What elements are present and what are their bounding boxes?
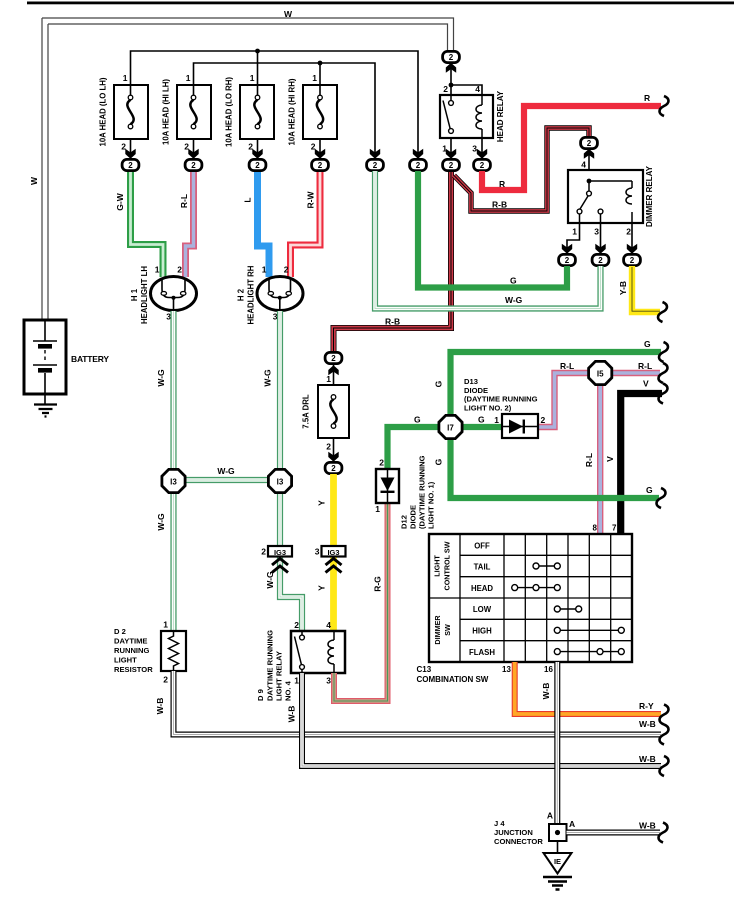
svg-text:IG3: IG3 bbox=[327, 548, 339, 557]
svg-text:(DAYTIME RUNNING: (DAYTIME RUNNING bbox=[418, 455, 427, 529]
svg-text:DAYTIME: DAYTIME bbox=[114, 637, 147, 646]
connector 2 under F4 bbox=[312, 159, 329, 170]
svg-text:3: 3 bbox=[594, 227, 599, 237]
svg-text:TAIL: TAIL bbox=[474, 563, 491, 572]
svg-text:2: 2 bbox=[443, 84, 448, 94]
wire R-L D13 to connector I5 and combination SW pin8 bbox=[538, 361, 660, 534]
svg-text:G: G bbox=[434, 380, 444, 387]
svg-text:G: G bbox=[434, 458, 444, 465]
svg-text:2: 2 bbox=[541, 415, 546, 425]
wire W battery to head relay (double line) bbox=[42, 18, 454, 320]
wire R-G D9 pin3 to diode D12 bbox=[334, 503, 388, 701]
connector IG3 (pin3) bbox=[315, 546, 346, 573]
svg-text:R-L: R-L bbox=[179, 194, 189, 208]
wire W-B from J4 right bbox=[567, 821, 661, 833]
node junction dot on line A bbox=[255, 49, 260, 54]
svg-text:V: V bbox=[643, 379, 649, 389]
connector arrow (G feed) bbox=[413, 149, 423, 159]
connector arrow dimmer pin1 bbox=[562, 244, 572, 254]
svg-text:H 1: H 1 bbox=[130, 288, 139, 301]
svg-text:1: 1 bbox=[375, 504, 380, 514]
svg-text:G: G bbox=[646, 485, 653, 495]
svg-text:LIGHT NO. 2): LIGHT NO. 2) bbox=[464, 403, 512, 412]
svg-text:G: G bbox=[478, 415, 485, 425]
svg-text:R-G: R-G bbox=[373, 576, 383, 592]
svg-text:I7: I7 bbox=[447, 424, 454, 433]
svg-text:IG3: IG3 bbox=[274, 548, 286, 557]
connector arrow F1 pin2 bbox=[125, 149, 135, 159]
svg-text:1: 1 bbox=[123, 73, 128, 83]
page top border line bbox=[27, 2, 734, 5]
connector I3 right bbox=[268, 469, 291, 492]
svg-text:2: 2 bbox=[284, 265, 289, 275]
svg-text:C13: C13 bbox=[417, 665, 432, 674]
connector arrow (W-G feed) bbox=[370, 149, 380, 159]
connector 2 head relay pin1 bbox=[443, 159, 460, 170]
svg-text:1: 1 bbox=[572, 227, 577, 237]
fuse F3 10A HEAD (LO RH) bbox=[225, 73, 275, 160]
connector 2 above DRL fuse bbox=[325, 352, 342, 363]
svg-text:Y: Y bbox=[317, 500, 327, 506]
svg-text:10A HEAD (HI LH): 10A HEAD (HI LH) bbox=[162, 79, 171, 145]
svg-text:V: V bbox=[605, 456, 615, 462]
connector 2 dimmer pin2 bbox=[624, 254, 641, 265]
svg-text:LIGHT: LIGHT bbox=[114, 656, 137, 665]
connector arrow head relay pin3 bbox=[477, 149, 487, 159]
svg-text:R: R bbox=[644, 93, 650, 103]
svg-text:HEAD: HEAD bbox=[471, 584, 493, 593]
svg-text:W-B: W-B bbox=[287, 706, 297, 723]
svg-text:G-W: G-W bbox=[115, 192, 125, 210]
svg-text:D 9: D 9 bbox=[256, 689, 265, 701]
svg-text:OFF: OFF bbox=[474, 541, 490, 550]
svg-text:W-B: W-B bbox=[639, 719, 656, 729]
relay DIMMER RELAY bbox=[568, 160, 654, 237]
connector arrow dimmer pin2 bbox=[627, 244, 637, 254]
wire W-G headlight RH pin3 down to IG3 bbox=[263, 311, 281, 574]
svg-text:1: 1 bbox=[262, 265, 267, 275]
svg-text:I3: I3 bbox=[170, 478, 177, 487]
svg-text:HEADLIGHT LH: HEADLIGHT LH bbox=[140, 266, 149, 324]
svg-text:2: 2 bbox=[177, 265, 182, 275]
svg-text:2: 2 bbox=[626, 227, 631, 237]
svg-text:R-L: R-L bbox=[560, 361, 574, 371]
svg-text:3: 3 bbox=[472, 144, 477, 154]
svg-text:7: 7 bbox=[612, 524, 617, 533]
battery bbox=[24, 320, 109, 404]
svg-text:W-B: W-B bbox=[639, 821, 656, 831]
svg-text:W-G: W-G bbox=[265, 571, 275, 589]
connector arrow dimmer pin3 bbox=[595, 244, 605, 254]
connector arrow F2 pin2 bbox=[188, 149, 198, 159]
svg-text:DIMMER RELAY: DIMMER RELAY bbox=[645, 165, 654, 227]
connector arrow F4 pin2 bbox=[315, 149, 325, 159]
wire G loop from connector I7 (top run, bottom run) bbox=[434, 339, 662, 498]
svg-text:2: 2 bbox=[294, 620, 299, 630]
svg-text:CONNECTOR: CONNECTOR bbox=[494, 837, 543, 846]
svg-text:R-L: R-L bbox=[584, 453, 594, 467]
svg-text:HIGH: HIGH bbox=[472, 627, 492, 636]
fuse F2 10A HEAD (HI LH) bbox=[162, 73, 212, 160]
svg-text:W-B: W-B bbox=[639, 754, 656, 764]
svg-text:LIGHT NO. 1): LIGHT NO. 1) bbox=[427, 481, 436, 529]
switch C13 COMBINATION SW bbox=[417, 524, 633, 684]
connector I5 bbox=[589, 361, 612, 384]
svg-text:R-B: R-B bbox=[492, 200, 507, 210]
svg-text:2: 2 bbox=[261, 547, 266, 557]
wire bus line B (fuses HI LH / HI RH) bbox=[194, 63, 376, 160]
connector 2 (W-G feed) bbox=[367, 159, 384, 170]
svg-text:Y: Y bbox=[317, 585, 327, 591]
svg-text:W-G: W-G bbox=[263, 369, 273, 387]
svg-text:1: 1 bbox=[494, 415, 499, 425]
svg-text:R-L: R-L bbox=[638, 361, 652, 371]
connector 2 under F2 bbox=[185, 159, 202, 170]
dimmer relay pin4 connector: arrow + oval bbox=[584, 149, 594, 159]
wire R-Y combination SW pin13 bbox=[515, 662, 661, 714]
svg-text:D13: D13 bbox=[464, 377, 478, 386]
svg-text:W-B: W-B bbox=[155, 698, 165, 715]
svg-text:G: G bbox=[644, 339, 651, 349]
svg-text:D 2: D 2 bbox=[114, 627, 126, 636]
connector 2 (G feed) bbox=[410, 159, 427, 170]
svg-text:W-G: W-G bbox=[156, 513, 166, 531]
svg-text:7.5A DRL: 7.5A DRL bbox=[302, 394, 311, 429]
svg-text:1: 1 bbox=[155, 265, 160, 275]
ground IE under J4 bbox=[543, 841, 572, 890]
svg-text:3: 3 bbox=[315, 547, 320, 557]
svg-text:A: A bbox=[569, 819, 575, 829]
svg-text:DIMMER: DIMMER bbox=[433, 615, 442, 645]
connector 2 under F3 bbox=[249, 159, 266, 170]
wire relay pin2/pin4 feed bbox=[451, 63, 482, 95]
svg-text:1: 1 bbox=[326, 374, 331, 384]
svg-text:NO. 4: NO. 4 bbox=[284, 680, 293, 701]
diode D13 (DAYTIME RUNNING LIGHT NO. 2) bbox=[464, 377, 546, 438]
wire W-G joining octagon connectors bbox=[185, 466, 268, 480]
svg-text:1: 1 bbox=[294, 676, 299, 686]
svg-text:LOW: LOW bbox=[473, 605, 492, 614]
connector I3 left bbox=[162, 469, 185, 492]
connector 2 dimmer pin3 bbox=[592, 254, 609, 265]
wire W-B combination SW pin16 to J4 bbox=[541, 662, 557, 824]
svg-text:2: 2 bbox=[379, 458, 384, 468]
ground (battery) bbox=[34, 405, 57, 417]
headlamp H1 HEADLIGHT LH bbox=[130, 265, 197, 325]
wire R-B head relay pin1 to DRL fuse and dimmer relay bbox=[334, 128, 590, 351]
wire G-W fuse F1 to headlight LH pin1 bbox=[115, 171, 163, 277]
head relay top connector: arrow + oval 2 bbox=[446, 63, 456, 73]
wire G connector to dimmer pin1 bbox=[418, 171, 567, 288]
wire bus line A (fuses LO LH / LO RH) bbox=[131, 51, 419, 160]
svg-text:I3: I3 bbox=[277, 478, 284, 487]
connector IG3 (pin2) bbox=[261, 546, 292, 573]
svg-text:10A HEAD (LO LH): 10A HEAD (LO LH) bbox=[99, 77, 108, 146]
svg-text:1: 1 bbox=[163, 620, 168, 630]
svg-text:1: 1 bbox=[442, 144, 447, 154]
svg-text:1: 1 bbox=[312, 73, 317, 83]
svg-text:W-G: W-G bbox=[217, 466, 235, 476]
wire W-G headlight LH pin3 down bbox=[156, 311, 174, 631]
svg-text:SW: SW bbox=[443, 624, 452, 636]
svg-text:G: G bbox=[510, 276, 517, 286]
svg-text:10A HEAD (LO RH): 10A HEAD (LO RH) bbox=[225, 77, 234, 147]
connector arrow DRL fuse pin2 bbox=[328, 452, 338, 462]
svg-text:HEAD RELAY: HEAD RELAY bbox=[496, 90, 505, 142]
connector arrow F3 pin2 bbox=[252, 149, 262, 159]
svg-text:13: 13 bbox=[502, 665, 511, 674]
fuse F4 10A HEAD (HI RH) bbox=[288, 73, 338, 160]
svg-text:I5: I5 bbox=[597, 370, 604, 379]
svg-text:HEADLIGHT RH: HEADLIGHT RH bbox=[247, 265, 256, 324]
svg-text:RESISTOR: RESISTOR bbox=[114, 665, 153, 674]
svg-text:3: 3 bbox=[326, 676, 331, 686]
svg-text:(DAYTIME RUNNING: (DAYTIME RUNNING bbox=[464, 395, 538, 404]
svg-text:JUNCTION: JUNCTION bbox=[494, 828, 533, 837]
svg-text:4: 4 bbox=[581, 160, 586, 170]
wire G D12 to connector I7 bbox=[388, 415, 441, 470]
svg-text:R: R bbox=[499, 179, 505, 189]
svg-text:IE: IE bbox=[554, 857, 561, 866]
connector 2 head relay pin3 bbox=[474, 159, 491, 170]
relay D9 DAYTIME RUNNING LIGHT RELAY NO. 4 bbox=[256, 620, 345, 701]
svg-text:1: 1 bbox=[186, 73, 191, 83]
svg-text:LIGHT RELAY: LIGHT RELAY bbox=[275, 651, 284, 701]
svg-text:R-Y: R-Y bbox=[639, 701, 654, 711]
connector 2 dimmer pin1 bbox=[559, 254, 576, 265]
wire R-L fuse F2 to headlight LH pin2 bbox=[179, 171, 194, 277]
wire W-B D2 pin2 bbox=[155, 671, 661, 735]
wire V combination SW pin7 bbox=[605, 379, 662, 535]
relay U HEAD RELAY bbox=[440, 84, 505, 160]
svg-text:2: 2 bbox=[326, 442, 331, 452]
svg-text:G: G bbox=[414, 415, 421, 425]
svg-text:R-B: R-B bbox=[385, 317, 400, 327]
diode D12 (DAYTIME RUNNING LIGHT NO. 1) bbox=[375, 455, 435, 529]
node junction dot bbox=[449, 83, 454, 88]
resistor D2 DAYTIME RUNNING LIGHT RESISTOR bbox=[114, 620, 186, 685]
wire Y-B dimmer pin2 bbox=[618, 266, 660, 312]
svg-text:CONTROL SW: CONTROL SW bbox=[443, 541, 452, 590]
svg-text:DAYTIME RUNNING: DAYTIME RUNNING bbox=[266, 630, 275, 701]
svg-text:8: 8 bbox=[593, 524, 598, 533]
svg-text:LIGHT: LIGHT bbox=[433, 555, 442, 577]
svg-text:W: W bbox=[284, 9, 293, 19]
connector I7 bbox=[439, 415, 462, 438]
svg-text:W-B: W-B bbox=[541, 683, 551, 700]
svg-text:A: A bbox=[547, 811, 553, 821]
svg-text:10A HEAD (HI RH): 10A HEAD (HI RH) bbox=[288, 78, 297, 145]
wire R-W fuse F4 to headlight RH pin2 bbox=[291, 171, 321, 277]
svg-text:DIODE: DIODE bbox=[409, 505, 418, 529]
connector 2 under F1 bbox=[122, 159, 139, 170]
node junction dot on line B bbox=[318, 61, 323, 66]
svg-text:16: 16 bbox=[544, 665, 553, 674]
svg-text:Y-B: Y-B bbox=[618, 281, 628, 295]
svg-text:BATTERY: BATTERY bbox=[71, 354, 109, 364]
svg-text:RUNNING: RUNNING bbox=[114, 646, 150, 655]
svg-text:W-G: W-G bbox=[156, 369, 166, 387]
svg-text:L: L bbox=[243, 197, 253, 202]
svg-text:R-W: R-W bbox=[306, 191, 316, 209]
svg-text:DIODE: DIODE bbox=[464, 386, 488, 395]
wire W-G connector to dimmer pin3 bbox=[375, 171, 601, 309]
junction connector J4 bbox=[494, 811, 575, 847]
svg-text:COMBINATION SW: COMBINATION SW bbox=[417, 675, 489, 684]
svg-text:2: 2 bbox=[163, 675, 168, 685]
connector arrow head relay pin1 bbox=[446, 149, 456, 159]
svg-text:W-G: W-G bbox=[505, 295, 523, 305]
wire Y DRL fuse to D9 relay pin4 bbox=[317, 474, 334, 631]
wire R head relay pin3 bbox=[482, 93, 661, 190]
svg-text:W: W bbox=[29, 176, 39, 185]
svg-text:4: 4 bbox=[326, 620, 331, 630]
svg-text:4: 4 bbox=[475, 84, 480, 94]
svg-text:J 4: J 4 bbox=[494, 819, 505, 828]
wires dimmer pins 1,3,2 to connectors bbox=[567, 223, 632, 256]
svg-text:FLASH: FLASH bbox=[469, 648, 495, 657]
svg-text:H 2: H 2 bbox=[237, 288, 246, 301]
fuse 7.5A DRL bbox=[302, 374, 350, 463]
wire W-B D9 pin1 bbox=[287, 673, 662, 766]
headlamp H2 HEADLIGHT RH bbox=[237, 265, 304, 325]
svg-text:1: 1 bbox=[250, 73, 255, 83]
wire L fuse F3 to headlight RH pin1 bbox=[243, 171, 270, 277]
svg-text:D12: D12 bbox=[400, 515, 409, 529]
fuse F1 10A HEAD (LO LH) bbox=[99, 73, 149, 160]
connector 2 under DRL fuse bbox=[325, 462, 342, 473]
wire continuation squiggles bbox=[657, 96, 669, 843]
wire W-G IG3 to D9 pin2 bbox=[265, 571, 302, 631]
